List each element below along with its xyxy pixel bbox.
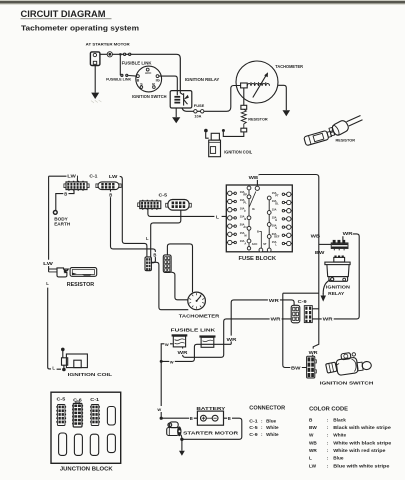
wire battery left (161, 417, 197, 419)
svg-text:A: A (244, 242, 246, 246)
svg-text:W: W (165, 342, 169, 347)
wire battery right down to starter (182, 418, 242, 439)
svg-text:IGNITION RELAY: IGNITION RELAY (185, 77, 220, 82)
connector C-5 (right half, plug) (166, 200, 192, 211)
svg-text:IGNITION: IGNITION (326, 284, 350, 289)
svg-text::: : (261, 425, 263, 430)
svg-text:Black with white stripe: Black with white stripe (333, 425, 391, 430)
svg-text:A1: A1 (243, 225, 247, 229)
svg-text:RELAY: RELAY (328, 291, 344, 296)
svg-text:B: B (228, 416, 231, 421)
wire C-9 top jog (312, 308, 319, 310)
svg-text::: : (327, 448, 329, 453)
ignition relay RY1 (170, 91, 192, 108)
svg-text:L: L (146, 236, 149, 241)
connector bullet on wire (107, 52, 112, 57)
svg-text:IGNITION COIL: IGNITION COIL (68, 372, 113, 377)
svg-text::: : (327, 417, 329, 422)
svg-text:C-1: C-1 (249, 418, 258, 423)
svg-text:Tachometer operating system: Tachometer operating system (21, 26, 139, 33)
svg-text:L: L (275, 243, 277, 247)
label LW (rail) (43, 260, 54, 267)
svg-text:10A: 10A (194, 115, 202, 119)
svg-text::: : (327, 463, 329, 468)
svg-text:BODY: BODY (54, 216, 68, 222)
ignition switch SW1 (136, 66, 162, 92)
svg-text::: : (261, 418, 263, 423)
wire FL2 to ignition switch terminal B (128, 75, 136, 78)
svg-text:IGNITION SWITCH: IGNITION SWITCH (320, 380, 374, 385)
svg-text:WR: WR (309, 350, 318, 355)
svg-text::: : (327, 425, 329, 430)
wire LW bracket down (to mid junction) (120, 176, 147, 257)
junction dot on W rail (160, 360, 163, 363)
svg-text:FUSIBLE LINK: FUSIBLE LINK (171, 327, 216, 332)
label B (mid junction) (153, 252, 159, 257)
svg-text:LW: LW (109, 174, 118, 179)
resistor R2 (body) (70, 268, 97, 277)
wire WB from fuse block top (257, 175, 318, 349)
svg-text:B: B (257, 230, 259, 234)
svg-text:B: B (244, 217, 246, 221)
svg-text:IGNITION SWITCH: IGNITION SWITCH (132, 94, 167, 99)
svg-text:RESISTOR: RESISTOR (67, 282, 95, 288)
svg-text:WR: WR (323, 317, 333, 322)
svg-text:B: B (137, 78, 140, 82)
wire WR#2 into C-9 (183, 319, 292, 357)
connector (left, 8-pin) (145, 257, 151, 271)
svg-text:L: L (216, 215, 219, 221)
svg-text:STARTER MOTOR: STARTER MOTOR (183, 431, 239, 436)
svg-text:FUSIBLE LINK: FUSIBLE LINK (106, 77, 132, 81)
wire B starter to relay (top) (100, 54, 180, 90)
svg-text:WB: WB (249, 175, 259, 180)
connector C-1 strip (90, 405, 100, 426)
wire BW down to ignition switch connector (283, 293, 307, 367)
svg-text:TACHOMETER: TACHOMETER (179, 313, 220, 318)
wire branch down to fusible link FL2 (119, 54, 121, 75)
svg-text:C-5: C-5 (159, 193, 168, 198)
svg-text:B: B (190, 416, 193, 421)
svg-text:LW: LW (43, 261, 53, 266)
ignition coil (bottom) (61, 348, 87, 372)
fusible link FL2 (120, 74, 128, 77)
resistor R2 (plug) (49, 268, 69, 277)
wire LW rail upper (48, 176, 50, 272)
svg-text::: : (327, 433, 329, 438)
label WR (on WR#1 wire) (268, 296, 280, 303)
svg-text:WR: WR (271, 317, 281, 322)
wire B from C-1 right down (111, 190, 156, 263)
svg-text:S: S (275, 226, 277, 230)
wire L from C-5 left to fuse block (148, 209, 226, 217)
wire WR#1 into C-9 (231, 300, 294, 344)
junction dot under starter (180, 438, 183, 441)
svg-text:WB: WB (309, 440, 317, 445)
fusible link FL3 (left) (172, 334, 188, 347)
fusible link FL4 (right) (199, 335, 215, 347)
svg-text:FUSE BLOCK: FUSE BLOCK (239, 256, 277, 262)
svg-text:RP: RP (243, 192, 247, 196)
svg-text:M: M (244, 233, 246, 237)
svg-text:BW: BW (309, 425, 317, 430)
svg-text:FUSIBLE LINK: FUSIBLE LINK (122, 61, 152, 66)
svg-text:Blue: Blue (266, 418, 276, 423)
starter motor M3 (167, 422, 182, 439)
connector C-5 (left half, pin strip) (138, 200, 161, 210)
svg-text:L: L (309, 456, 312, 461)
svg-text:RESISTOR: RESISTOR (336, 139, 356, 143)
svg-text:Blue with white stripe: Blue with white stripe (333, 463, 390, 468)
junction block JB1 (51, 392, 121, 463)
tachometer M2 (gauge) (188, 292, 206, 310)
tachometer M1 (236, 61, 278, 103)
fusible link FL1 (on top wire) (119, 53, 131, 56)
label L (at fuse block) (214, 212, 221, 220)
svg-text:BW: BW (291, 366, 301, 371)
svg-text:PL: PL (243, 201, 247, 205)
svg-text:W: W (309, 433, 314, 438)
wire tachometer down to resistor (243, 88, 245, 105)
svg-text:C-1: C-1 (90, 397, 100, 402)
empty slots bottom row (59, 433, 67, 455)
svg-text:WB: WB (311, 233, 321, 238)
svg-text:ST: ST (263, 242, 267, 246)
svg-text:White with black stripe: White with black stripe (333, 440, 391, 445)
svg-text:COLOR CODE: COLOR CODE (309, 407, 349, 413)
svg-text:ACC: ACC (145, 71, 152, 75)
svg-text:AT STARTER MOTOR: AT STARTER MOTOR (86, 41, 130, 46)
wire to tachometer bottom (from connector) (152, 262, 189, 309)
svg-text::: : (261, 432, 263, 437)
empty slot top right (107, 407, 115, 426)
svg-text:PT: PT (275, 193, 279, 197)
junction dot at battery branch (160, 417, 163, 420)
wire resistor to ignition coil (223, 132, 244, 137)
label IGNITION RELAY (canister) (326, 284, 350, 296)
wire L rail lower to ignition coil (48, 288, 61, 370)
svg-text:B: B (153, 252, 156, 257)
wire WR bracket down right side (313, 234, 360, 319)
connector (right, 8-pin) (163, 255, 171, 273)
resistor assembly (isometric) (304, 116, 363, 146)
resistor R1 connector top (241, 105, 247, 109)
svg-text:DL: DL (275, 202, 279, 206)
label BODY EARTH (54, 216, 71, 227)
wire WR stub into switch connector (312, 355, 314, 357)
label WR (on WR#2 wire) (270, 315, 282, 322)
svg-text:RESISTOR: RESISTOR (248, 116, 268, 121)
svg-text:IG: IG (156, 78, 160, 82)
wire W branch to right link bottom (161, 344, 231, 361)
svg-text:EARTH: EARTH (54, 222, 71, 228)
wire WB into connector (319, 243, 331, 245)
svg-text:IGNITION COIL: IGNITION COIL (224, 150, 252, 155)
connector C-6 strip (72, 402, 83, 427)
ground under starter junction (179, 439, 185, 456)
svg-text:WR: WR (178, 350, 188, 355)
connector (3-pin strip) (331, 240, 348, 251)
connector C-5 strip (56, 405, 66, 426)
svg-text:DEF: DEF (274, 234, 280, 238)
svg-text:FUSE: FUSE (194, 104, 205, 108)
svg-text:JUNCTION BLOCK: JUNCTION BLOCK (60, 467, 113, 473)
svg-text:LW: LW (309, 463, 317, 468)
svg-text:CONNECTOR: CONNECTOR (249, 406, 285, 412)
title CIRCUIT DIAGRAM (21, 9, 112, 19)
connector C-1 (right half, plug) (96, 182, 121, 190)
wire L from C-5 right down to connector (151, 210, 181, 257)
svg-text:White: White (266, 425, 279, 430)
fuse (10A) circles (194, 110, 204, 113)
svg-text:White with red stripe: White with red stripe (333, 448, 386, 453)
svg-text:C-5: C-5 (249, 425, 258, 430)
svg-text:BATTERY: BATTERY (196, 406, 225, 411)
svg-text:White: White (333, 433, 346, 438)
svg-text:C-9: C-9 (298, 299, 308, 304)
starter-motor terminal box (90, 52, 100, 66)
wire BW tee to left (283, 292, 319, 294)
svg-text:B: B (109, 192, 112, 197)
label WR (near right fusible link) (226, 336, 238, 342)
connector C-9 (left half) (291, 305, 300, 323)
resistor R1 connector bottom (241, 128, 247, 132)
svg-text:B: B (309, 417, 313, 422)
ground right of tachometer (283, 110, 291, 116)
svg-text:C-1: C-1 (89, 174, 98, 179)
svg-text:LW: LW (67, 174, 76, 179)
svg-text:Blue: Blue (333, 456, 344, 461)
svg-text::: : (327, 456, 329, 461)
ground below starter motor (91, 66, 101, 103)
svg-text:IG: IG (252, 207, 255, 211)
scan border top (0, 0, 405, 5)
svg-text:TACHOMETER: TACHOMETER (275, 64, 303, 69)
ignition switch (isometric drawing) (326, 353, 372, 376)
svg-text:WR: WR (343, 231, 353, 236)
resistor R1 zigzag (241, 109, 246, 128)
ignition coil (top) terminals (204, 129, 225, 138)
fuse block FB1 (226, 185, 292, 252)
label WR (right of C-9) (322, 315, 334, 322)
ground below ignition relay (172, 108, 180, 123)
svg-text:F: F (244, 209, 246, 213)
wire tachometer right to ground (278, 85, 287, 110)
svg-text:CIRCUIT DIAGRAM: CIRCUIT DIAGRAM (21, 9, 106, 19)
svg-text::: : (327, 440, 329, 445)
svg-text:WR: WR (269, 298, 279, 303)
connector C-9 (right half, pin strip) (304, 306, 312, 323)
svg-text:L: L (46, 281, 49, 286)
wire relay through fuse to tachometer (182, 86, 241, 112)
svg-text:White: White (266, 432, 279, 437)
svg-text:ACC: ACC (252, 242, 258, 246)
wire IG terminal to ignition relay (159, 76, 177, 91)
svg-text:WR: WR (227, 337, 237, 342)
svg-text:C-5: C-5 (57, 396, 67, 401)
svg-text:B: B (64, 192, 67, 197)
svg-text:15A: 15A (272, 207, 277, 211)
svg-text:L: L (52, 366, 55, 371)
svg-text:W: W (170, 359, 174, 364)
label WR (under left fusible link) (177, 349, 189, 355)
svg-text:W: W (157, 407, 161, 412)
wire B from C-1 to body earth (56, 190, 74, 211)
wire to tachometer left (170, 272, 188, 300)
switch connector (pin strip) (307, 356, 317, 378)
label WB (top) (248, 174, 259, 180)
battery BAT1 (197, 411, 223, 425)
connector C-1 (left half, pin strip) (64, 181, 89, 191)
ignition coil (top) body (209, 133, 221, 156)
svg-text:H: H (275, 218, 277, 222)
svg-text:WR: WR (309, 448, 317, 453)
wire to tachometer top (167, 244, 192, 292)
label W (rail) (157, 406, 165, 412)
ground arrow below relay (321, 296, 327, 302)
wire LW to connector C-1 left (49, 176, 78, 182)
label B (under C-1 right) (108, 192, 113, 198)
svg-text:BW: BW (315, 250, 325, 255)
svg-text:Black: Black (333, 417, 346, 422)
ignition relay RY2 (canister) (325, 256, 350, 282)
wire relay to ground arrow (323, 280, 330, 294)
body earth terminal (53, 211, 57, 215)
wire W bracket to left link (161, 344, 173, 418)
svg-text:C-9: C-9 (249, 432, 258, 437)
